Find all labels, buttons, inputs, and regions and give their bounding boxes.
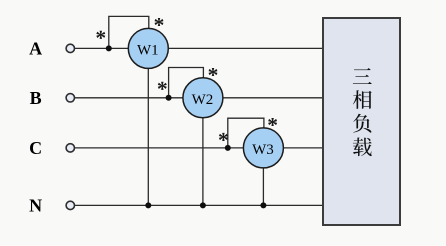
svg-text:A: A xyxy=(29,39,42,59)
node junction on line C xyxy=(225,145,231,151)
wire W2 voltage coil to neutral xyxy=(202,98,204,206)
terminal N xyxy=(66,201,74,209)
svg-text:W1: W1 xyxy=(137,42,159,58)
terminal C xyxy=(66,144,74,152)
wire W1 voltage coil to neutral xyxy=(147,48,149,205)
svg-text:W3: W3 xyxy=(252,142,274,158)
wire neutral line xyxy=(75,204,324,206)
polarity mark * W3 current xyxy=(219,133,228,141)
node junction on line A xyxy=(106,45,112,51)
node junction W2 on neutral xyxy=(200,202,206,208)
node junction W3 on neutral xyxy=(260,202,266,208)
wire W3 voltage coil loop xyxy=(228,118,264,148)
label char 载 xyxy=(353,138,372,157)
wire W2 voltage coil loop xyxy=(169,68,204,98)
polarity mark * W2 current xyxy=(158,82,167,90)
wire phase A line xyxy=(75,47,324,49)
svg-text:B: B xyxy=(30,88,42,108)
svg-text:C: C xyxy=(29,138,42,158)
terminal A xyxy=(66,44,74,52)
polarity mark * W3 voltage xyxy=(268,118,277,126)
polarity mark * W2 voltage xyxy=(209,68,218,76)
wire phase B line xyxy=(75,97,324,99)
svg-text:N: N xyxy=(29,196,42,216)
node junction on line B xyxy=(166,95,172,101)
svg-text:W2: W2 xyxy=(192,92,214,108)
load box 三相负载 xyxy=(323,18,400,225)
wire W3 voltage coil to neutral xyxy=(262,148,264,206)
wattmeter W3 xyxy=(243,128,283,168)
label char 三 xyxy=(353,68,372,84)
wattmeter W1 xyxy=(128,28,168,68)
polarity mark * W1 current xyxy=(96,31,105,39)
wire phase C line xyxy=(75,147,324,149)
wire W1 voltage coil loop xyxy=(109,16,149,48)
polarity mark * W1 voltage xyxy=(155,18,164,26)
label char 相 xyxy=(353,90,372,109)
label char 负 xyxy=(353,114,371,133)
node junction W1 on neutral xyxy=(145,202,151,208)
terminal B xyxy=(66,94,74,102)
wattmeter W2 xyxy=(183,78,223,118)
